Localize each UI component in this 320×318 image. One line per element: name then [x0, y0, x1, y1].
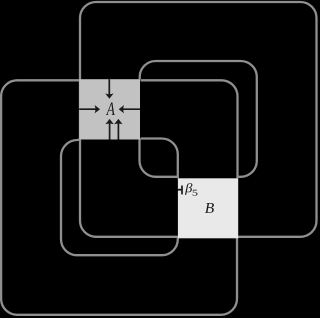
tick bar	[181, 186, 183, 195]
arrow into A from bottom 1	[109, 123, 111, 140]
coupon B	[178, 178, 238, 238]
label beta_5	[185, 183, 192, 195]
arrow into A from bottom 2	[117, 123, 119, 140]
arrow into A from right	[123, 108, 140, 110]
coupon A	[79, 79, 140, 139]
label A	[106, 103, 115, 116]
wire S7 (A top-right corner right then down to B top edge)	[141, 80, 238, 178]
wire S4 (A bottom-right corner down then right to B top-left)	[140, 139, 178, 177]
wire S2 (A top-left, left side, bottom, up to B bottom-right)	[1, 80, 237, 314]
arrow into A from top	[108, 79, 110, 95]
label B	[205, 203, 214, 213]
arrow into A from left	[79, 108, 96, 110]
wire S1 big outer loop (A top-left corner around to A bottom-left corner)	[80, 2, 317, 237]
wire S3 (A bottom-left corner down-left, along, up to B bottom-left)	[61, 140, 178, 256]
tick stub into B left edge	[178, 189, 182, 191]
wire S5 (A bottom-right corner right then down to B top-left)	[141, 139, 178, 179]
wire S6 (A top-right corner up, over, down right side to B top-right)	[140, 61, 257, 177]
